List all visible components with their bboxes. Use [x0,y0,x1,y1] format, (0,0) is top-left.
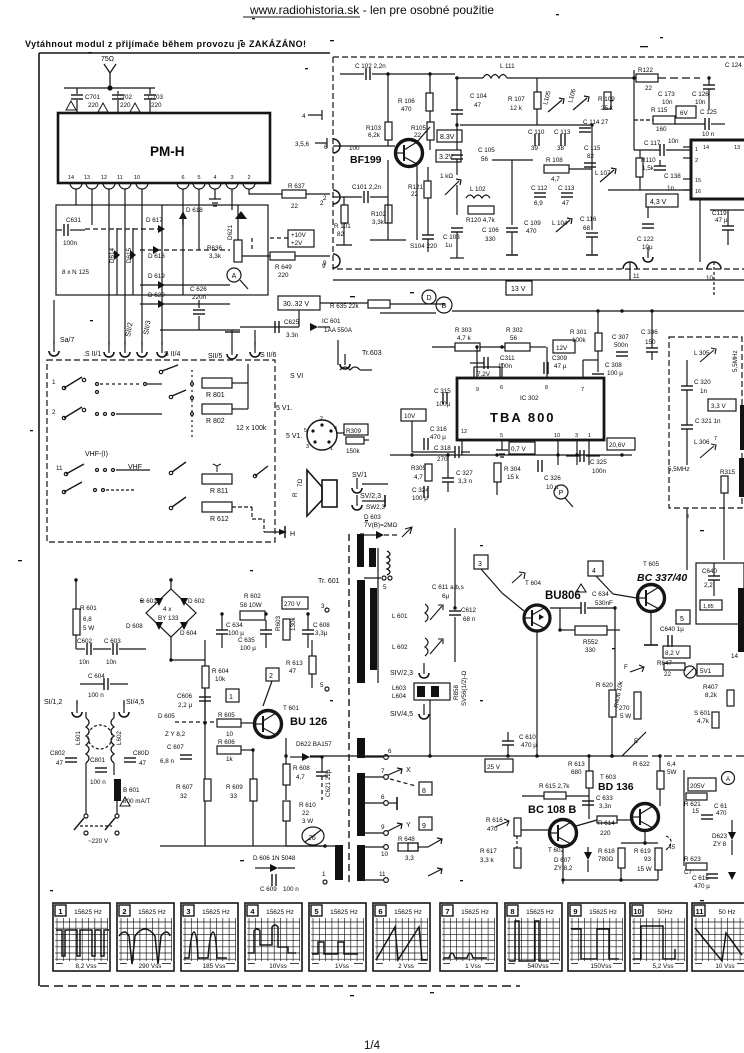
svg-text:R 606: R 606 [218,739,235,746]
svg-text:3: 3 [575,433,578,439]
svg-text:BF199: BF199 [350,154,382,166]
svg-text:15 k: 15 k [507,474,520,481]
svg-text:IC 601: IC 601 [322,318,341,325]
svg-text:22: 22 [645,85,653,92]
svg-text:R 304: R 304 [504,466,521,473]
svg-text:C 173: C 173 [658,91,675,98]
svg-text:D 619: D 619 [148,273,165,280]
svg-text:6: 6 [500,385,503,391]
svg-text:L604: L604 [392,693,407,700]
svg-text:Vytáhnout modul z přijímače bě: Vytáhnout modul z přijímače během provoz… [25,39,307,49]
svg-text:68 n: 68 n [463,616,476,623]
svg-text:270: 270 [437,456,448,463]
svg-text:P: P [559,490,564,497]
svg-text:2: 2 [52,409,56,416]
svg-text:10: 10 [134,175,140,181]
svg-text:3,3 k: 3,3 k [480,857,495,864]
svg-text:R 610: R 610 [299,802,316,809]
svg-text:R120 4,7k: R120 4,7k [466,217,496,224]
svg-text:10 Vss: 10 Vss [715,963,734,970]
svg-text:10: 10 [706,275,714,282]
svg-text:S II/6: S II/6 [260,352,276,359]
svg-text:PM-H: PM-H [150,144,185,159]
svg-text:47: 47 [289,668,297,675]
svg-text:25 V: 25 V [487,764,501,771]
svg-text:C101 2,2n: C101 2,2n [352,184,382,191]
svg-text:R552: R552 [583,639,599,646]
svg-text:C 634: C 634 [592,591,609,598]
svg-text:C 124: C 124 [725,62,742,69]
svg-text:150Vss: 150Vss [590,963,611,970]
svg-text:C 106: C 106 [482,227,499,234]
svg-text:R 115: R 115 [651,107,668,114]
svg-text:6µ: 6µ [442,593,450,600]
svg-text:C 604: C 604 [88,673,105,680]
svg-text:11: 11 [633,273,640,280]
svg-text:L 111: L 111 [500,63,515,70]
svg-text:T 605: T 605 [643,561,659,568]
svg-text:15625 Hz: 15625 Hz [74,909,102,916]
svg-text:D 604: D 604 [180,630,197,637]
svg-text:C801: C801 [90,757,106,764]
svg-text:3: 3 [686,514,689,520]
svg-text:12V: 12V [556,345,568,352]
svg-text:SV/1: SV/1 [352,472,367,479]
svg-text:R102: R102 [371,211,387,218]
svg-text:D 617: D 617 [146,217,163,224]
svg-text:C 634: C 634 [226,622,243,629]
svg-text:C625: C625 [284,319,300,326]
svg-text:47 µ: 47 µ [554,363,567,370]
svg-text:530nF: 530nF [595,600,613,607]
svg-text:470 µ: 470 µ [694,883,710,890]
svg-text:C606: C606 [177,693,193,700]
svg-text:3: 3 [230,175,233,181]
svg-text:SIV/2,3: SIV/2,3 [390,670,413,677]
svg-text:R858: R858 [453,684,460,700]
svg-text:470 µ: 470 µ [430,434,446,441]
svg-text:SII/2: SII/2 [125,322,134,337]
svg-text:R603: R603 [275,615,282,631]
svg-text:3: 3 [186,907,190,916]
svg-text:L602: L602 [116,730,123,745]
svg-text:R 302: R 302 [506,327,523,334]
svg-text:D622 BA157: D622 BA157 [296,741,332,748]
svg-text:C640 1µ: C640 1µ [660,626,684,633]
svg-text:6: 6 [381,794,385,801]
svg-text:C 307: C 307 [612,334,629,341]
svg-text:11: 11 [379,871,386,878]
svg-text:C 318: C 318 [434,445,451,452]
svg-text:R 811: R 811 [210,488,228,495]
svg-text:185 Vss: 185 Vss [203,963,226,970]
svg-text:L603: L603 [392,685,407,692]
svg-text:10Vss: 10Vss [269,963,287,970]
svg-text:SIV/4,5: SIV/4,5 [390,711,413,718]
svg-text:D621: D621 [227,224,234,240]
svg-text:C 316: C 316 [430,426,447,433]
svg-text:11: 11 [696,907,704,916]
svg-text:6,9: 6,9 [534,200,543,207]
svg-text:1Vss: 1Vss [335,963,349,970]
svg-text:R 303: R 303 [455,327,472,334]
svg-text:X: X [406,767,411,774]
svg-text:Z Y 8,2: Z Y 8,2 [165,731,186,738]
svg-text:10V: 10V [404,413,416,420]
svg-text:100µ: 100µ [436,401,451,408]
svg-text:BC 337/40: BC 337/40 [637,572,687,584]
svg-text:R636: R636 [207,245,223,252]
svg-text:C621: C621 [325,781,332,797]
svg-text:15625 Hz: 15625 Hz [266,909,294,916]
svg-text:1AA 550A: 1AA 550A [324,327,353,334]
svg-text:SW2,3: SW2,3 [366,504,385,511]
svg-text:8: 8 [510,907,514,916]
svg-text:13: 13 [734,145,740,151]
svg-text:T 603: T 603 [600,774,616,781]
svg-text:130k: 130k [290,616,297,631]
svg-text:15: 15 [695,178,701,184]
svg-text:R 648: R 648 [398,836,415,843]
svg-text:7Ω: 7Ω [297,478,304,487]
svg-text:R 612: R 612 [210,516,229,523]
svg-text:R: R [292,492,299,497]
svg-text:1: 1 [229,694,233,701]
svg-text:C 321 1n: C 321 1n [695,418,721,425]
svg-text:R 613: R 613 [286,660,303,667]
svg-text:10 µ: 10 µ [546,484,559,491]
svg-text:C 105: C 105 [478,147,495,154]
svg-text:D 606 1N 5048: D 606 1N 5048 [253,855,296,862]
svg-text:R 608: R 608 [293,765,310,772]
svg-text:5W: 5W [667,769,677,776]
svg-text:100 n: 100 n [90,779,106,786]
svg-text:7: 7 [714,436,717,442]
svg-text:3,3: 3,3 [405,855,414,862]
svg-text:5 V1.: 5 V1. [276,405,292,412]
svg-text:15625 Hz: 15625 Hz [589,909,617,916]
svg-text:C 109: C 109 [524,220,541,227]
svg-text:R 604: R 604 [212,668,229,675]
svg-text:R 108: R 108 [546,157,563,164]
svg-text:C 116: C 116 [580,216,597,223]
svg-text:C640: C640 [702,568,718,575]
svg-text:C702: C702 [117,94,133,101]
svg-text:2: 2 [247,175,250,181]
svg-text:C 122: C 122 [637,236,654,243]
svg-text:L 107: L 107 [595,170,611,177]
svg-text:12: 12 [101,175,107,181]
svg-text:10n: 10n [668,138,679,145]
svg-text:ZY 8: ZY 8 [713,841,727,848]
svg-text:D 603: D 603 [364,514,381,521]
svg-text:D 616: D 616 [148,253,165,260]
svg-text:R 649: R 649 [275,264,292,271]
svg-text:Sa/7: Sa/7 [60,337,75,344]
svg-text:9: 9 [422,823,426,830]
svg-text:470: 470 [716,810,727,817]
svg-text:4,7: 4,7 [296,774,305,781]
svg-text:www.radiohistoria.sk - len pre: www.radiohistoria.sk - len pre osobné po… [249,3,494,17]
svg-text:C 113: C 113 [558,185,575,192]
svg-text:C612: C612 [461,607,477,614]
svg-text:5V1: 5V1 [700,668,712,675]
svg-text:22: 22 [411,191,419,198]
svg-text:R105: R105 [411,125,427,132]
svg-text:3,5,6: 3,5,6 [295,141,310,148]
svg-text:6V: 6V [680,110,689,117]
svg-text:C 308: C 308 [605,362,622,369]
svg-text:470: 470 [487,826,498,833]
svg-text:SV/2,3: SV/2,3 [360,493,381,500]
svg-text:15625 Hz: 15625 Hz [526,909,554,916]
svg-text:R 637: R 637 [288,183,305,190]
svg-text:15 W: 15 W [637,866,652,873]
svg-text:8: 8 [545,385,548,391]
svg-text:100n: 100n [592,468,607,475]
svg-text:30..32 V: 30..32 V [283,301,309,308]
svg-text:R 802: R 802 [206,418,225,425]
svg-text:L 102: L 102 [470,186,486,193]
svg-text:BU806: BU806 [545,590,581,602]
svg-text:D 602: D 602 [188,598,205,605]
svg-text:T 602: T 602 [548,847,564,854]
svg-text:C 138: C 138 [664,173,681,180]
svg-text:39: 39 [531,145,539,152]
svg-text:SII/5: SII/5 [208,353,223,360]
svg-text:+2V: +2V [291,240,303,247]
svg-text:BY 133: BY 133 [158,615,179,622]
svg-text:5,5MHz: 5,5MHz [668,466,690,473]
svg-text:R 607: R 607 [176,784,193,791]
svg-text:20,6V: 20,6V [609,442,626,449]
svg-text:6: 6 [181,175,184,181]
svg-text:R315: R315 [720,469,736,476]
svg-text:1: 1 [322,871,326,878]
svg-text:3: 3 [306,444,309,450]
svg-text:4: 4 [592,568,596,575]
svg-text:220: 220 [278,272,289,279]
svg-text:L601: L601 [75,730,82,745]
svg-text:4: 4 [250,907,255,916]
svg-text:5: 5 [500,433,503,439]
svg-text:R 613: R 613 [568,761,585,768]
svg-text:C119: C119 [712,210,727,217]
svg-text:8 x N 125: 8 x N 125 [62,269,89,276]
svg-text:16: 16 [695,189,701,195]
svg-text:D: D [426,295,431,302]
svg-text:D623: D623 [712,833,728,840]
svg-text:12 k: 12 k [510,105,523,112]
svg-text:C 326: C 326 [544,475,561,482]
svg-text:220: 220 [88,102,99,109]
svg-text:C 117: C 117 [644,140,661,147]
svg-text:4 x: 4 x [163,606,172,613]
svg-text:R 621: R 621 [684,801,701,808]
svg-text:13: 13 [84,175,90,181]
svg-text:15625 Hz: 15625 Hz [202,909,230,916]
svg-text:68: 68 [583,225,591,232]
svg-text:220n: 220n [192,294,207,301]
svg-text:2 Vss: 2 Vss [398,963,414,970]
svg-text:50 Hz: 50 Hz [719,909,736,916]
svg-text:56: 56 [481,156,489,163]
svg-text:1: 1 [58,907,62,916]
svg-text:4: 4 [302,113,306,120]
svg-text:R 623: R 623 [684,856,701,863]
svg-text:11: 11 [117,175,123,181]
svg-text:C 125: C 125 [700,109,717,116]
svg-text:3.3n: 3.3n [286,332,299,339]
svg-text:6,2k: 6,2k [368,132,381,139]
svg-text:R 109: R 109 [598,96,615,103]
svg-text:5 W: 5 W [620,713,631,720]
svg-text:4: 4 [334,426,337,432]
svg-text:11: 11 [56,465,63,472]
svg-text:82: 82 [587,153,595,160]
svg-text:7: 7 [381,768,385,775]
svg-text:3,3 n: 3,3 n [458,478,473,485]
svg-text:10: 10 [554,433,560,439]
svg-text:R305: R305 [411,465,427,472]
svg-text:47 µ: 47 µ [715,217,728,224]
svg-text:100 µ: 100 µ [607,370,623,377]
svg-text:Tr.603: Tr.603 [362,350,382,357]
svg-text:~220 V: ~220 V [88,838,109,845]
svg-text:330: 330 [485,236,496,243]
svg-text:12: 12 [461,429,467,435]
svg-text:50Hz: 50Hz [657,909,672,916]
svg-text:2,2: 2,2 [704,582,713,589]
svg-text:R 605: R 605 [218,712,235,719]
svg-text:R 601: R 601 [80,605,97,612]
svg-text:47: 47 [562,200,570,207]
svg-text:C 324: C 324 [412,487,429,494]
svg-text:2: 2 [323,195,327,202]
svg-text:100 µ: 100 µ [228,630,244,637]
svg-text:C 610: C 610 [519,734,536,741]
svg-text:47: 47 [56,760,64,767]
svg-text:D 605: D 605 [158,713,175,720]
svg-text:SII/3: SII/3 [143,320,152,335]
svg-text:C802: C802 [50,750,66,757]
svg-text:C 336: C 336 [641,329,658,336]
svg-text:3: 3 [478,561,482,568]
svg-text:470: 470 [401,106,412,113]
svg-text:1,85: 1,85 [703,604,714,610]
svg-text:BU 126: BU 126 [290,716,327,728]
svg-text:C701: C701 [85,94,101,101]
svg-text:R 301: R 301 [570,329,587,336]
svg-text:9: 9 [476,387,479,393]
svg-text:10n: 10n [662,99,673,106]
svg-text:680: 680 [571,769,582,776]
svg-text:4,7k: 4,7k [697,718,710,725]
svg-text:22: 22 [302,810,310,817]
svg-text:R 618: R 618 [598,848,615,855]
svg-text:4,7 k: 4,7 k [457,335,472,342]
svg-text:TBA 800: TBA 800 [490,410,556,425]
svg-text:R 617: R 617 [480,848,497,855]
svg-text:1,5k: 1,5k [642,165,655,172]
svg-text:F: F [624,664,628,671]
svg-text:1: 1 [52,379,56,386]
svg-text:BC 108 B: BC 108 B [528,804,576,816]
svg-text:R 101: R 101 [334,223,351,230]
svg-text:SI/1,2: SI/1,2 [44,699,62,706]
svg-text:15625 Hz: 15625 Hz [330,909,358,916]
svg-text:L 602: L 602 [392,644,408,651]
svg-text:32: 32 [180,793,188,800]
svg-text:14: 14 [703,145,709,151]
svg-text:T 601: T 601 [283,705,299,712]
svg-text:C602: C602 [77,638,93,645]
svg-text:C 104: C 104 [470,93,487,100]
svg-text:T 604: T 604 [525,580,541,587]
svg-text:R103: R103 [366,125,382,132]
svg-text:7: 7 [445,907,449,916]
svg-text:9: 9 [573,907,577,916]
svg-text:58 10W: 58 10W [240,602,262,609]
svg-text:93: 93 [644,856,652,863]
svg-text:150k: 150k [346,448,361,455]
svg-text:6,4: 6,4 [667,761,676,768]
svg-text:1n: 1n [667,185,675,192]
svg-text:C309: C309 [552,355,568,362]
svg-text:26: 26 [307,835,316,842]
svg-text:1 Vss: 1 Vss [465,963,481,970]
svg-text:R 106: R 106 [398,98,415,105]
svg-text:5: 5 [314,907,318,916]
svg-text:C 61: C 61 [714,803,728,810]
svg-text:2: 2 [269,673,273,680]
svg-text:5,2 Vss: 5,2 Vss [653,963,674,970]
svg-text:C 635: C 635 [238,637,255,644]
svg-text:R 801: R 801 [206,392,225,399]
svg-text:10n: 10n [106,659,117,666]
svg-text:C 320: C 320 [694,379,711,386]
svg-text:S VI: S VI [290,373,303,380]
svg-text:205V: 205V [690,783,706,790]
svg-text:5 V1.: 5 V1. [286,433,302,440]
svg-text:C311: C311 [500,355,515,362]
svg-text:5: 5 [197,175,200,181]
svg-text:1: 1 [695,147,698,153]
svg-text:56: 56 [510,335,518,342]
svg-text:5: 5 [320,682,324,689]
svg-text:7: 7 [581,387,584,393]
svg-text:10: 10 [633,907,641,916]
svg-text:5: 5 [383,584,387,591]
svg-text:1: 1 [330,446,333,452]
svg-text:270: 270 [619,705,630,712]
svg-text:150: 150 [645,339,656,346]
svg-text:IC 302: IC 302 [520,395,539,402]
svg-text:47: 47 [139,760,147,767]
svg-text:15: 15 [692,808,700,815]
svg-text:S 601: S 601 [694,710,711,717]
svg-text:C631: C631 [66,217,82,224]
svg-text:D 620: D 620 [148,292,165,299]
svg-text:BD 136: BD 136 [598,781,634,793]
svg-text:330: 330 [585,647,596,654]
svg-text:C 607: C 607 [167,744,184,751]
svg-text:R407: R407 [703,684,719,691]
svg-text:8,2 Vss: 8,2 Vss [76,963,97,970]
svg-text:R309: R309 [346,428,362,435]
svg-text:22µ: 22µ [325,769,332,780]
svg-text:10 n: 10 n [702,131,715,138]
